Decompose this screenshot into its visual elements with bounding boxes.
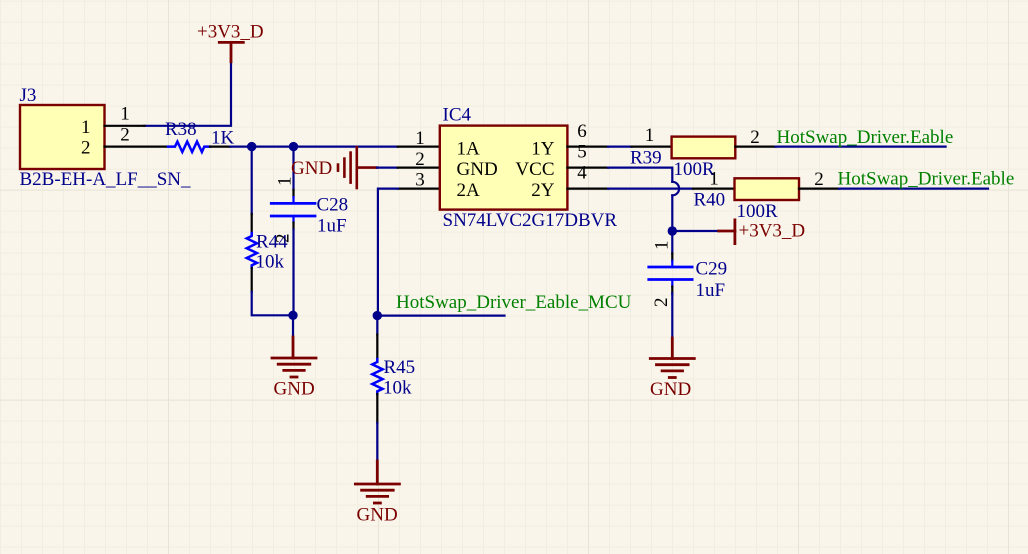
IC4 value label SN74LVC2G17DBVR — [443, 210, 618, 231]
resistor R45 — [372, 316, 382, 423]
R45 designator label — [384, 357, 416, 378]
svg-text:2A: 2A — [457, 180, 481, 201]
svg-text:1uF: 1uF — [317, 216, 347, 237]
net label HotSwap_Driver_Eable_MCU — [396, 292, 632, 313]
svg-text:1A: 1A — [457, 138, 481, 159]
C29 designator label — [696, 259, 728, 280]
J3 pin 1 lead — [105, 125, 145, 127]
IC4 designator label — [443, 105, 472, 126]
capacitor C28 — [271, 190, 315, 230]
wire hop (VCC over pin 4 net) — [672, 182, 679, 196]
svg-text:1uF: 1uF — [696, 280, 726, 301]
resistor R44 — [247, 214, 257, 292]
svg-text:C29: C29 — [696, 259, 728, 280]
svg-text:J3: J3 — [20, 85, 37, 106]
svg-text:1K: 1K — [211, 127, 235, 148]
svg-text:GND: GND — [274, 378, 315, 399]
resistor R39 — [632, 137, 776, 159]
svg-text:10k: 10k — [383, 377, 412, 398]
wire IC4 pin 3 to node D — [378, 189, 398, 316]
IC4 pin 2 lead — [398, 167, 440, 169]
R40 pin 1 number — [709, 169, 719, 190]
svg-text:B2B-EH-A_LF__SN_: B2B-EH-A_LF__SN_ — [20, 169, 192, 190]
svg-text:2: 2 — [750, 127, 760, 148]
IC4 pin 3 number — [415, 170, 425, 191]
IC4 pin 6 lead — [567, 146, 608, 148]
wire IC4 pin 6 to R39 — [608, 146, 631, 148]
svg-text:R39: R39 — [630, 148, 662, 169]
wire node E to +3V3_D (right) — [672, 230, 718, 232]
wire VCC: IC4 pin 5 to node E — [608, 168, 672, 231]
R39 value label 100R — [674, 159, 716, 180]
C28 pin 2 number (rotated) — [273, 234, 294, 244]
wire C29 to GND (right) — [671, 293, 673, 338]
R38 value label 1K — [211, 127, 235, 148]
J3 pin 2 number — [120, 124, 130, 145]
ground GND (bottom) — [355, 461, 399, 503]
J3 pin 1 number — [120, 104, 130, 125]
capacitor C29 — [649, 254, 692, 295]
wire R40 to net HotSwap_Driver.Eable (lower) — [839, 188, 988, 190]
C28 pin 1 number (rotated) — [275, 177, 296, 187]
net label HotSwap_Driver.Eable (lower) — [838, 169, 1015, 190]
svg-text:1: 1 — [709, 169, 719, 190]
R39 pin 1 number — [645, 125, 655, 146]
svg-text:VCC: VCC — [515, 159, 554, 180]
R38 designator label — [165, 119, 197, 140]
R40 designator label — [694, 190, 726, 211]
junction node C — [288, 311, 297, 320]
IC4 pin 1 lead — [398, 146, 440, 148]
ground GND (left) — [272, 337, 316, 377]
R40 pin 2 number — [814, 169, 824, 190]
resistor R38 — [168, 142, 210, 152]
R45 value label 10k — [383, 377, 412, 398]
svg-text:HotSwap_Driver_Eable_MCU: HotSwap_Driver_Eable_MCU — [396, 292, 632, 313]
R39 pin 2 number — [750, 127, 760, 148]
junction node A — [247, 142, 256, 151]
svg-text:3: 3 — [415, 170, 425, 191]
IC4 pin 3 lead — [398, 188, 440, 190]
wire node D net stub HotSwap_Driver_Eable_MCU — [377, 315, 504, 317]
svg-text:2: 2 — [81, 138, 91, 159]
svg-text:10k: 10k — [256, 252, 285, 273]
svg-text:5: 5 — [577, 142, 587, 163]
svg-text:+3V3_D: +3V3_D — [739, 220, 806, 241]
svg-text:1Y: 1Y — [531, 138, 555, 159]
power +3V3_D (top) — [219, 42, 243, 61]
C29 pin 2 number (rotated) — [651, 298, 672, 308]
wire C28 to node C — [292, 230, 294, 316]
junction node B — [289, 142, 298, 151]
IC4 pin 6 number — [577, 121, 587, 142]
wire R45 to GND — [376, 423, 378, 461]
svg-text:R38: R38 — [165, 119, 197, 140]
wire node C to GND — [292, 315, 294, 337]
GND label (right) — [650, 379, 691, 400]
svg-text:4: 4 — [577, 163, 587, 184]
C29 pin 1 number (rotated) — [652, 241, 673, 251]
C28 value label 1uF — [317, 216, 347, 237]
power-ground GND (at IC4 pin 2) — [338, 147, 377, 188]
+3V3_D net label (top) — [197, 22, 264, 43]
svg-text:R40: R40 — [694, 190, 726, 211]
svg-text:C28: C28 — [317, 195, 349, 216]
wire R38 to R44/C28 lead — [210, 146, 398, 148]
svg-text:GND: GND — [291, 158, 332, 179]
svg-text:2: 2 — [814, 169, 824, 190]
IC4 pin 5 number — [577, 142, 587, 163]
svg-text:2: 2 — [273, 234, 294, 244]
IC4 pin 5 lead — [567, 167, 608, 169]
svg-text:GND: GND — [650, 379, 691, 400]
svg-text:IC4: IC4 — [443, 105, 472, 126]
wire node E to C29 — [671, 231, 673, 254]
svg-text:R45: R45 — [384, 357, 416, 378]
R39 designator label — [630, 148, 662, 169]
svg-text:SN74LVC2G17DBVR: SN74LVC2G17DBVR — [443, 210, 618, 231]
svg-text:1: 1 — [415, 128, 425, 149]
J3 value label B2B-EH-A_LF__SN_ — [20, 169, 192, 190]
junction node E — [668, 226, 677, 235]
svg-text:2Y: 2Y — [531, 180, 555, 201]
R40 value label 100R — [737, 201, 779, 222]
svg-text:GND: GND — [357, 504, 398, 525]
power +3V3_D (right) — [719, 220, 735, 244]
resistor R40 — [693, 178, 839, 200]
svg-text:6: 6 — [577, 121, 587, 142]
GND label (mid) — [291, 158, 332, 179]
+3V3_D net label (right) — [739, 220, 806, 241]
svg-text:1: 1 — [645, 125, 655, 146]
GND label (bottom) — [357, 504, 398, 525]
connector J3 — [20, 105, 105, 169]
C28 designator label — [317, 195, 349, 216]
svg-text:1: 1 — [81, 117, 91, 138]
wire J3 pin1 to +3V3_D — [145, 62, 232, 126]
svg-text:1: 1 — [652, 241, 673, 251]
IC IC4 SN74LVC2G17DBVR — [440, 126, 568, 210]
IC4 pin 4 number — [577, 163, 587, 184]
ground GND (right) — [650, 338, 694, 378]
R44 designator label — [256, 231, 288, 252]
C29 value label 1uF — [696, 280, 726, 301]
wire R39 to net HotSwap_Driver.Eable (upper) — [776, 146, 946, 148]
R44 value label 10k — [256, 252, 285, 273]
svg-text:100R: 100R — [737, 201, 779, 222]
IC4 pin 2 number — [415, 149, 425, 170]
J3 pin 2 lead — [105, 146, 169, 148]
GND label (left) — [274, 378, 315, 399]
svg-text:2: 2 — [651, 298, 672, 308]
svg-text:2: 2 — [120, 124, 130, 145]
wire R44 bottom to node C — [252, 292, 293, 315]
wire node A down to R44 — [251, 147, 253, 214]
svg-text:GND: GND — [457, 159, 498, 180]
junction node D — [373, 311, 382, 320]
net label HotSwap_Driver.Eable (upper) — [777, 127, 954, 148]
IC4 pin 4 lead — [567, 188, 608, 190]
wire GND symbol to IC4 pin 2 — [377, 167, 398, 169]
J3 designator label — [20, 85, 37, 106]
svg-text:+3V3_D: +3V3_D — [197, 22, 264, 43]
svg-text:1: 1 — [120, 104, 130, 125]
wire node B down to C28 — [292, 147, 294, 190]
svg-text:2: 2 — [415, 149, 425, 170]
svg-text:HotSwap_Driver.Eable: HotSwap_Driver.Eable — [777, 127, 954, 148]
wire IC4 pin 4 to R40 — [608, 188, 693, 190]
IC4 pin 1 number — [415, 128, 425, 149]
svg-text:HotSwap_Driver.Eable: HotSwap_Driver.Eable — [838, 169, 1015, 190]
